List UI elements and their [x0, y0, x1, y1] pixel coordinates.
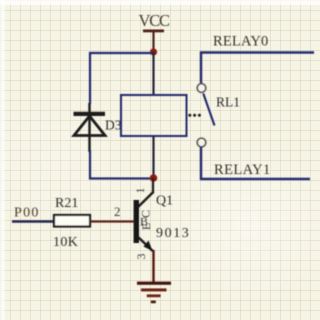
svg-text:RL1: RL1	[216, 95, 240, 110]
svg-text:3: 3	[134, 254, 148, 260]
node VCC junction	[150, 48, 157, 55]
transistor Q1	[134, 178, 191, 251]
node collector junction	[150, 174, 158, 182]
svg-text:E: E	[139, 223, 153, 230]
svg-text:C: C	[139, 210, 153, 218]
wire from VCC junction left to diode branch	[90, 53, 153, 104]
svg-text:VCC: VCC	[139, 11, 171, 30]
wire RELAY1	[201, 147, 310, 179]
wire diode bottom to lower junction	[90, 150, 151, 179]
diode D3	[74, 103, 122, 152]
ground	[137, 282, 171, 304]
relay coil RL1 box	[121, 95, 187, 136]
wire relay coil bottom to lower junction	[152, 136, 154, 178]
svg-text:R21: R21	[55, 196, 78, 211]
power symbol VCC	[139, 11, 171, 51]
relay contact NO terminal	[197, 138, 206, 147]
svg-text:1: 1	[133, 188, 147, 194]
svg-text:RELAY0: RELAY0	[213, 34, 268, 50]
svg-text:RELAY1: RELAY1	[214, 162, 271, 178]
svg-text:9013: 9013	[156, 226, 190, 241]
wire P00 to resistor	[12, 220, 54, 222]
resistor R21	[53, 196, 90, 250]
wire RELAY0	[201, 53, 314, 85]
wire resistor to base	[90, 220, 134, 222]
svg-text:10K: 10K	[53, 235, 78, 250]
svg-text:2: 2	[114, 204, 121, 219]
relay contact RL1 common terminal	[197, 84, 206, 93]
relay actuation dashed link	[188, 114, 201, 117]
relay switch arm	[203, 94, 214, 126]
svg-text:Q1: Q1	[156, 194, 173, 209]
svg-text:P00: P00	[14, 206, 40, 221]
wire from VCC junction down to relay coil	[152, 52, 154, 95]
svg-text:D3: D3	[105, 118, 122, 133]
wire emitter to ground	[152, 250, 154, 282]
